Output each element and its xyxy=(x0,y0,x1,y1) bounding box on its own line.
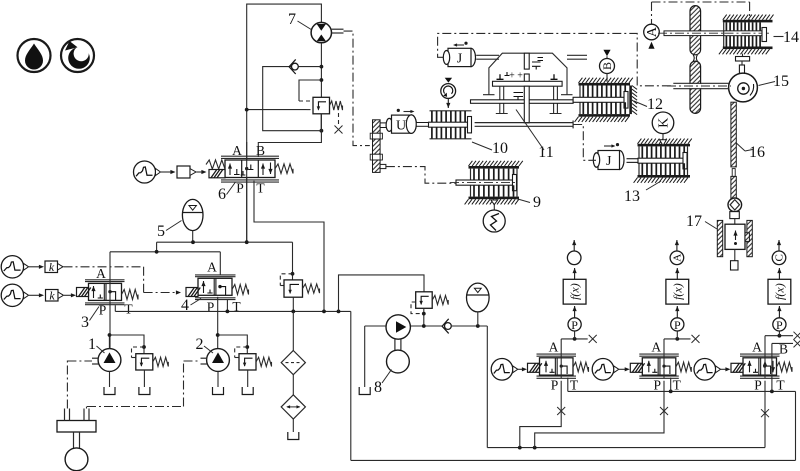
wire group 3 through line over body xyxy=(764,355,766,379)
wire motor7 main line xyxy=(320,43,324,133)
wire frame tap y110 xyxy=(245,108,313,112)
cooler xyxy=(281,395,305,440)
final drive 17 xyxy=(686,213,752,270)
relief valve (pump 2) xyxy=(235,347,272,395)
wire valve3 through line over body xyxy=(109,279,111,305)
svg-text:11: 11 xyxy=(538,144,553,161)
wire group 1 A-port junction xyxy=(561,331,597,355)
svg-text:A: A xyxy=(232,143,242,158)
svg-text:A: A xyxy=(645,26,660,37)
amplifier (valve6) xyxy=(161,166,207,178)
speed sensor A xyxy=(644,24,660,49)
wire valve6 T drain xyxy=(254,181,324,312)
hydraulic motor 7 xyxy=(288,11,344,43)
wire input dash-dot frame xyxy=(438,33,673,85)
pump 2 xyxy=(196,336,230,395)
svg-text:J: J xyxy=(457,51,463,66)
accumulator (pump8) xyxy=(467,283,490,326)
accumulator 5 xyxy=(157,199,203,242)
svg-text:1: 1 xyxy=(88,336,96,353)
svg-text:B: B xyxy=(256,143,265,158)
wire k1 to valve4 solenoid dash-dot xyxy=(64,267,182,295)
gearbox housing 11 xyxy=(471,53,588,161)
svg-text:f(x): f(x) xyxy=(772,283,786,300)
pump 1 xyxy=(88,335,121,395)
wire riser group3 xyxy=(761,381,769,448)
speed sensor (clutch10) xyxy=(441,78,456,108)
wire supply rail y242 xyxy=(157,240,295,280)
pressure sensor P group 1 xyxy=(568,306,581,332)
svg-text:K: K xyxy=(657,118,672,128)
svg-text:A: A xyxy=(207,260,217,275)
svg-text:12: 12 xyxy=(647,96,663,113)
svg-text:P: P xyxy=(776,318,783,332)
brake 9 xyxy=(450,161,541,211)
svg-text:P: P xyxy=(571,318,578,332)
wire riser group2 xyxy=(535,381,668,448)
wire filter branch xyxy=(292,311,294,350)
signal generator k1 xyxy=(1,256,28,278)
svg-text:B: B xyxy=(600,62,614,70)
svg-text:P: P xyxy=(654,378,662,393)
signal generator group 3 xyxy=(694,359,731,381)
wire clutch14 to pulley xyxy=(736,54,750,74)
relief valve (pump7 circuit) xyxy=(313,97,343,133)
wire supply rail y251 xyxy=(110,250,220,254)
wire group 1 through line over body xyxy=(560,355,562,379)
wire to valve6 port B xyxy=(258,131,321,157)
svg-text:+ +: + + xyxy=(509,71,523,82)
proportional valve group 2 xyxy=(630,340,691,393)
proportional valve group 3 xyxy=(731,340,792,393)
filter xyxy=(281,351,305,395)
clutch 13 xyxy=(624,139,692,205)
wire pump7 top frame xyxy=(247,4,322,242)
function block f(x) group 2 xyxy=(666,268,689,304)
svg-text:P: P xyxy=(674,318,681,332)
wire engine to pump2 dash-dot xyxy=(87,361,201,409)
svg-text:k: k xyxy=(49,260,55,274)
svg-text:P: P xyxy=(236,181,244,196)
engine prime mover xyxy=(57,409,96,471)
wire valve3 T riser xyxy=(114,305,116,311)
wire valve4 P riser xyxy=(217,297,219,349)
svg-text:J: J xyxy=(606,154,612,169)
wire main return line xyxy=(115,310,350,461)
svg-text:9: 9 xyxy=(533,194,541,211)
svg-text:A: A xyxy=(672,254,684,262)
torque gear stack (PTO) xyxy=(370,120,390,173)
signal generator (valve6) xyxy=(134,161,161,183)
wire PTO to brake9 dash-dot xyxy=(386,167,461,184)
svg-text:k: k xyxy=(49,289,55,303)
pressure sensor P group 3 xyxy=(773,306,786,332)
wire T return line xyxy=(568,378,796,461)
wire valve4 T riser xyxy=(226,300,228,312)
wire group 3 A-port junction xyxy=(765,331,800,378)
clutch 14 xyxy=(719,15,799,55)
svg-text:f(x): f(x) xyxy=(568,283,582,300)
wire riser group1 xyxy=(520,381,565,448)
wire relief bypass loop xyxy=(339,275,425,312)
shaft through lower gear xyxy=(667,83,731,88)
svg-text:7: 7 xyxy=(288,11,296,28)
svg-text:T: T xyxy=(570,378,579,393)
wire bus y460 xyxy=(351,459,796,461)
wire motor7 shaft dash-dot to gear stack xyxy=(344,31,370,146)
check valve (pump8) xyxy=(442,319,451,334)
shaft 16 xyxy=(731,102,765,199)
relief valve (pump 1) xyxy=(132,347,169,395)
svg-text:T: T xyxy=(776,378,785,393)
svg-text:8: 8 xyxy=(374,379,382,396)
solenoid valve 4 xyxy=(181,260,249,315)
wire valve6 through line xyxy=(246,142,248,242)
signal generator group 2 xyxy=(592,359,630,381)
solenoid valve 3 xyxy=(77,266,139,331)
wire valve4 A riser xyxy=(219,252,221,275)
svg-text:C: C xyxy=(774,254,786,261)
wire valve3 P riser xyxy=(109,302,111,348)
wire group 2 through line over body xyxy=(663,355,665,379)
svg-text:T: T xyxy=(124,302,133,317)
svg-text:P: P xyxy=(754,378,762,393)
wire group 2 A-port junction xyxy=(664,331,700,355)
proportional valve 6 xyxy=(206,143,293,203)
amplifier k2 xyxy=(29,289,76,303)
pressure sensor K (clutch13) xyxy=(652,112,674,146)
output sensor group 1 xyxy=(567,240,581,265)
svg-text:13: 13 xyxy=(624,188,640,205)
shaft through upper gear xyxy=(658,31,770,36)
pressure sensor P group 2 xyxy=(671,306,684,332)
svg-text:16: 16 xyxy=(749,144,765,161)
relief valve pilot loop xyxy=(299,80,321,101)
pump 8 with motor xyxy=(359,315,410,396)
svg-text:T: T xyxy=(673,378,682,393)
wire engine to pump1 dash-dot xyxy=(67,360,92,409)
wire pump8 pressure line xyxy=(386,324,487,328)
check valve bypass branch xyxy=(263,67,322,131)
gear upper (bevel set) xyxy=(690,6,701,114)
wire clutch10 shaft to J2 dash-dot xyxy=(475,121,596,161)
svg-text:17: 17 xyxy=(686,213,702,230)
svg-text:P: P xyxy=(551,378,559,393)
wire pump 2 outlet branch xyxy=(216,333,249,354)
wire pump 1 outlet branch xyxy=(108,333,146,354)
wire valve3 A riser xyxy=(109,252,111,282)
svg-text:A: A xyxy=(651,340,661,355)
clutch 10 xyxy=(429,111,509,157)
svg-text:P: P xyxy=(99,303,107,318)
svg-text:f(x): f(x) xyxy=(670,283,684,300)
svg-text:P: P xyxy=(207,300,215,315)
icon rotation xyxy=(61,39,94,72)
universal joint xyxy=(728,198,742,219)
pulley 15 xyxy=(729,73,789,102)
wire bus y447 xyxy=(487,446,765,450)
relief valve (pump 8) xyxy=(411,292,448,326)
svg-text:T: T xyxy=(256,181,265,196)
check valve xyxy=(289,59,298,74)
wire pump8 to bus xyxy=(486,326,488,448)
svg-text:U: U xyxy=(396,119,406,134)
function block f(x) group 3 xyxy=(768,268,791,304)
svg-text:15: 15 xyxy=(773,73,789,90)
amplifier k1 xyxy=(29,260,63,274)
speed sensor (brake9) xyxy=(483,200,505,232)
signal generator group 1 xyxy=(491,359,527,381)
input shaft J2 xyxy=(593,143,640,170)
torque converter U xyxy=(386,109,430,134)
clutch 12 xyxy=(573,78,663,122)
input shaft J1 xyxy=(443,42,499,67)
wire top dash-dot (clutch14 control) xyxy=(652,2,750,24)
svg-text:5: 5 xyxy=(157,223,165,240)
pilot relief valve (main system) xyxy=(280,274,319,312)
svg-text:A: A xyxy=(549,340,559,355)
svg-text:10: 10 xyxy=(492,140,508,157)
svg-text:6: 6 xyxy=(218,186,226,203)
svg-text:3: 3 xyxy=(81,314,89,331)
function block f(x) group 1 xyxy=(563,268,586,304)
proportional valve group 1 xyxy=(528,340,589,393)
output sensor group 3 xyxy=(772,240,786,265)
svg-text:2: 2 xyxy=(196,336,204,353)
wire valve6 through line over body xyxy=(246,157,248,181)
svg-text:14: 14 xyxy=(783,29,799,46)
icon oil-drop xyxy=(18,39,51,72)
svg-text:A: A xyxy=(96,266,106,281)
pressure sensor B (clutch12) xyxy=(600,50,615,82)
output sensor group 2 xyxy=(670,240,684,265)
signal generator k2 xyxy=(1,284,28,306)
svg-text:A: A xyxy=(752,340,762,355)
